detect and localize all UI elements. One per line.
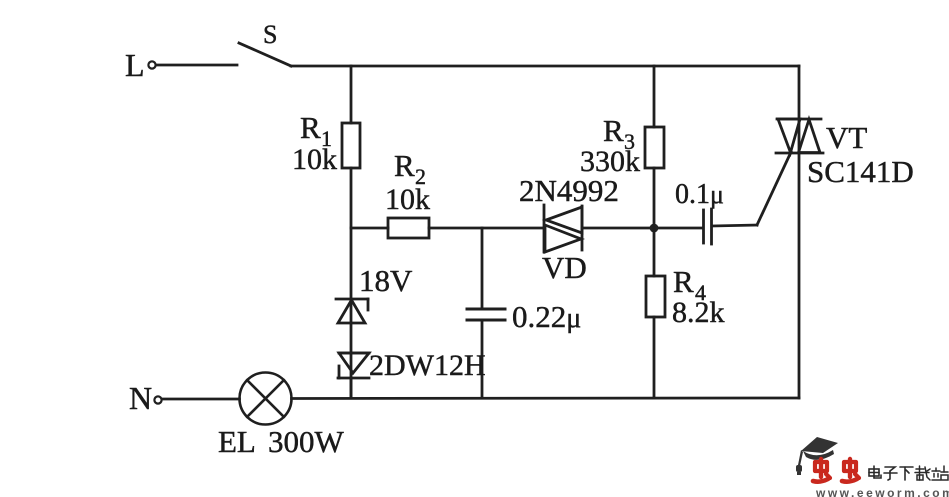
wire C1 to bottom bbox=[481, 320, 484, 398]
logo glyph zai bbox=[915, 466, 930, 480]
watermark logo eeworm bbox=[796, 437, 949, 497]
svg-text:R: R bbox=[394, 148, 415, 183]
svg-text:18V: 18V bbox=[359, 263, 413, 298]
wire node to R2 bbox=[351, 227, 388, 230]
terminal L bbox=[148, 61, 155, 68]
zener VZ2 2DW12H bbox=[338, 353, 369, 378]
svg-text:VD: VD bbox=[542, 250, 587, 285]
logo graduation cap board bbox=[796, 437, 838, 475]
svg-text:N: N bbox=[129, 380, 152, 416]
switch S bbox=[239, 43, 291, 66]
svg-text:S: S bbox=[263, 20, 277, 49]
svg-text:10k: 10k bbox=[385, 183, 430, 216]
logo glyph zhan bbox=[932, 466, 948, 480]
svg-text:0.1μ: 0.1μ bbox=[675, 179, 724, 210]
wire top to R1 bbox=[350, 66, 353, 123]
wire top rail bbox=[291, 65, 799, 68]
wire bottom rail bbox=[292, 397, 800, 400]
logo glyph zi bbox=[884, 467, 897, 480]
triac VT bbox=[776, 119, 823, 153]
svg-text:300W: 300W bbox=[268, 424, 345, 459]
logo chong glyph 1 (red bug) bbox=[813, 459, 830, 482]
capacitor C2 0.1u bbox=[704, 209, 712, 244]
svg-text:8.2k: 8.2k bbox=[672, 296, 725, 329]
svg-text:R: R bbox=[603, 113, 624, 148]
svg-text:2N4992: 2N4992 bbox=[519, 173, 619, 208]
capacitor C1 0.22u bbox=[467, 309, 505, 320]
svg-text:SC141D: SC141D bbox=[807, 154, 914, 189]
wire R4 to bottom bbox=[653, 317, 656, 398]
resistor R3 bbox=[645, 127, 664, 168]
svg-text:www.eeworm.com: www.eeworm.com bbox=[815, 486, 949, 497]
logo cap crown bbox=[803, 450, 834, 460]
logo cap tassel bbox=[798, 450, 803, 466]
svg-text:EL: EL bbox=[218, 424, 256, 459]
svg-text:R: R bbox=[673, 264, 694, 299]
wire junction to C1 bbox=[481, 228, 484, 309]
zener VZ1 18V bbox=[336, 299, 368, 323]
svg-text:2DW12H: 2DW12H bbox=[369, 349, 486, 382]
svg-text:10k: 10k bbox=[292, 143, 337, 176]
node junction bbox=[650, 224, 659, 233]
wire C2 to gate bend bbox=[712, 225, 757, 226]
lamp EL bbox=[240, 373, 292, 425]
wire right rail bbox=[798, 66, 801, 398]
diac VD 2N4992 bbox=[544, 205, 582, 252]
svg-text:VT: VT bbox=[826, 120, 867, 155]
wire R1 to zener column bbox=[350, 168, 353, 398]
wire gate diagonal bbox=[757, 152, 791, 225]
svg-text:0.22μ: 0.22μ bbox=[512, 299, 581, 334]
wire L to switch bbox=[156, 64, 237, 67]
wire zener to bottom bbox=[350, 378, 353, 398]
terminal N bbox=[154, 396, 161, 403]
wire top to R3 bbox=[653, 66, 656, 127]
wire node to R4 bbox=[653, 228, 656, 276]
wire R3 to node bbox=[653, 168, 656, 228]
svg-text:L: L bbox=[125, 47, 145, 83]
wire diac to node bbox=[582, 227, 703, 230]
logo glyph xia bbox=[900, 467, 913, 480]
wire R2 to diac bbox=[429, 227, 544, 230]
svg-text:R: R bbox=[300, 110, 321, 145]
resistor R2 bbox=[388, 218, 429, 238]
wire N to lamp bbox=[162, 398, 240, 401]
resistor R4 bbox=[646, 276, 665, 317]
logo glyph dian bbox=[869, 466, 881, 478]
logo chong glyph 2 (red bug) bbox=[842, 459, 859, 482]
resistor R1 bbox=[342, 123, 360, 168]
